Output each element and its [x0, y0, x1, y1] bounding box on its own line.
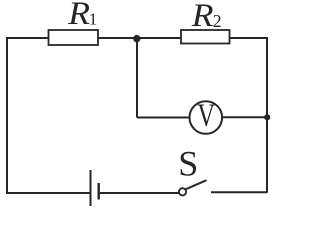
svg-text:R: R [191, 0, 214, 34]
svg-text:2: 2 [213, 11, 222, 31]
svg-text:S: S [178, 143, 198, 183]
svg-text:R: R [67, 0, 90, 32]
svg-text:V: V [197, 98, 215, 134]
svg-text:1: 1 [89, 10, 98, 29]
